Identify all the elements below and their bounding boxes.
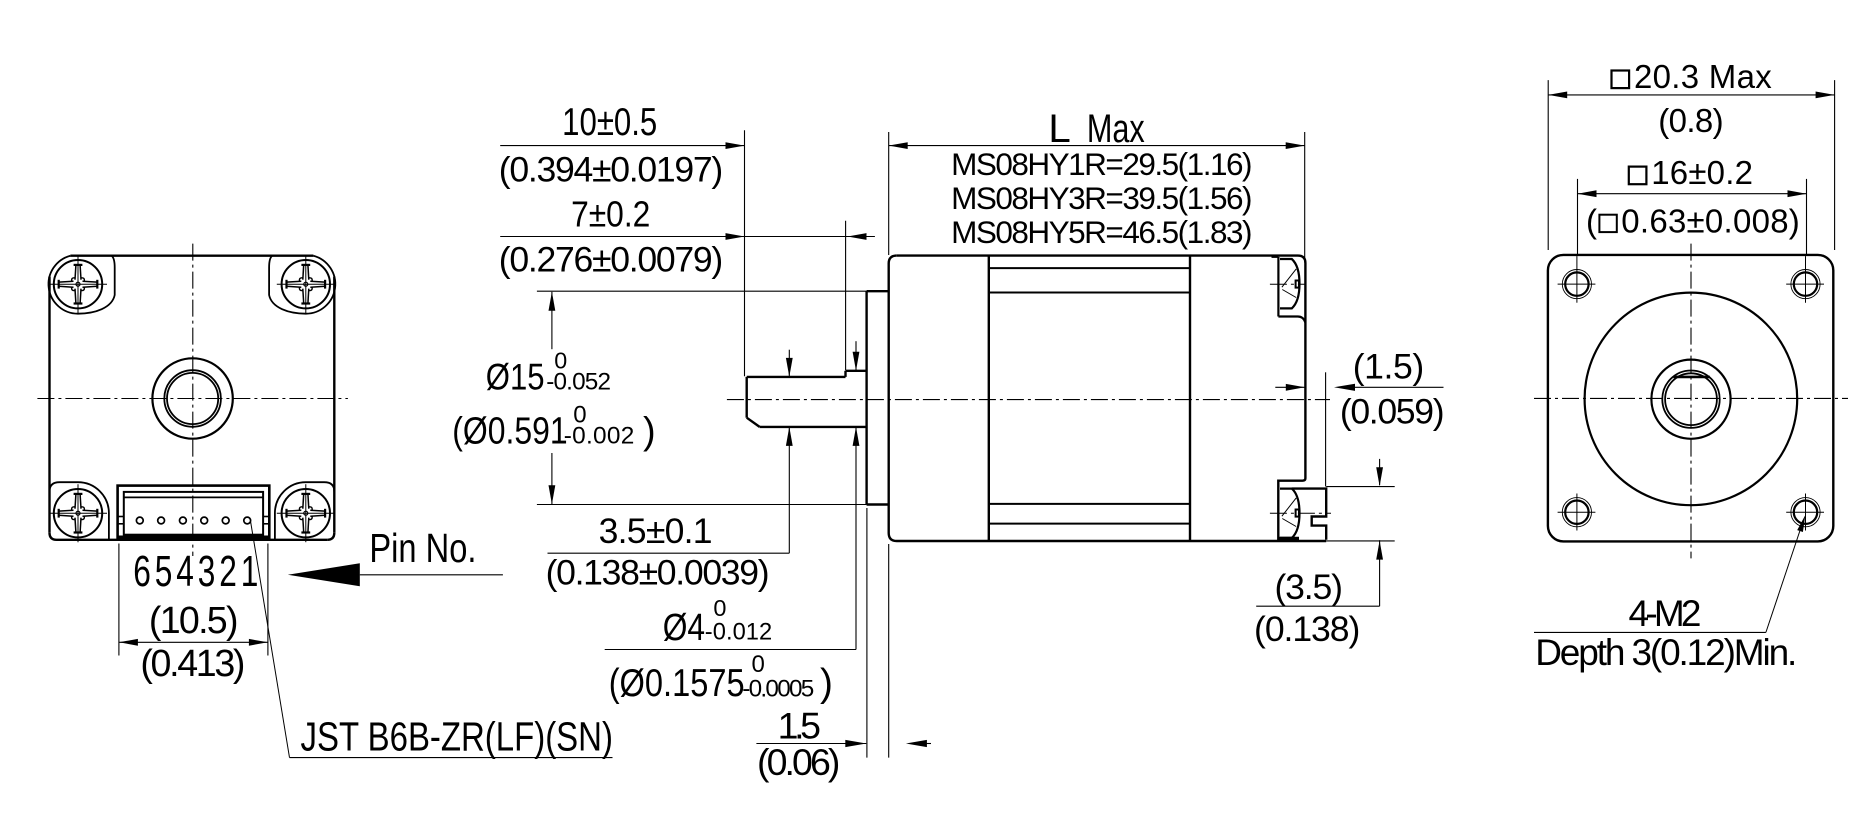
middle view: shaft axis centerline	[727, 399, 1330, 401]
label 4-M2 Depth 3(0.12)Min. with leader to hole	[1534, 520, 1804, 632]
svg-text:(Ø0.1575: (Ø0.1575	[609, 661, 745, 704]
dimension Ø15 boss diameter	[537, 291, 867, 504]
dimension 10±0.5 / (0.394±0.0197)	[500, 130, 889, 376]
left view: center pilot boss circles	[152, 358, 232, 438]
svg-text:(0.138±0.0039): (0.138±0.0039)	[546, 553, 770, 593]
svg-text:Ø4: Ø4	[663, 606, 705, 648]
left view: center lines	[37, 244, 348, 556]
svg-text:): )	[643, 410, 656, 452]
svg-text:(0.413): (0.413)	[140, 642, 245, 684]
dimension square 20.3 Max / (0.8)	[1548, 71, 1834, 251]
svg-text:MS08HY3R=39.5(1.56): MS08HY3R=39.5(1.56)	[951, 180, 1252, 216]
dimension (1.5)/(0.059) rear tab protrusion	[1275, 372, 1443, 486]
screw top-left	[49, 255, 107, 313]
dimension Ø4 shaft diameter	[605, 341, 856, 649]
dimension square 16±0.2 / (0.63±0.008) hole spacing	[1578, 167, 1807, 256]
middle view: top screw head (section)	[1270, 259, 1307, 308]
svg-text:0: 0	[752, 651, 765, 678]
svg-text:0: 0	[573, 401, 586, 428]
svg-text:7±0.2: 7±0.2	[571, 195, 650, 235]
svg-text:0: 0	[713, 595, 726, 621]
right view: front face square	[1548, 255, 1833, 542]
svg-text:(: (	[1586, 202, 1597, 239]
connector pins 6..1	[136, 517, 250, 524]
middle view: lamination stack lines	[989, 256, 1190, 541]
svg-text:): )	[820, 662, 833, 705]
svg-text:MS08HY1R=29.5(1.16): MS08HY1R=29.5(1.16)	[951, 146, 1252, 182]
screw bottom-left	[49, 484, 107, 542]
svg-text:(0.276±0.0079): (0.276±0.0079)	[499, 239, 723, 279]
dimension 1.5/(0.06) boss length	[756, 508, 931, 758]
svg-text:(0.06): (0.06)	[757, 741, 840, 783]
middle view: top rear screw pocket	[1272, 257, 1306, 323]
svg-text:(3.5): (3.5)	[1274, 567, 1343, 607]
left view: corner ear contours around screws	[49, 256, 336, 540]
svg-text:4-M2: 4-M2	[1629, 593, 1702, 634]
svg-text:(1.5): (1.5)	[1353, 346, 1425, 386]
left view: motor rear face outline	[50, 256, 335, 540]
dimension 3.5±0.1 shaft flat	[548, 350, 790, 554]
JST B6B-ZR(LF)(SN) label with leader from pin 1	[251, 521, 613, 758]
svg-text:16±0.2: 16±0.2	[1651, 154, 1753, 191]
svg-text:20.3 Max: 20.3 Max	[1634, 58, 1772, 95]
svg-text:(0.8): (0.8)	[1658, 102, 1723, 139]
svg-text:0: 0	[554, 347, 567, 373]
svg-text:3.5±0.1: 3.5±0.1	[599, 511, 713, 551]
svg-text:(0.394±0.0197): (0.394±0.0197)	[499, 149, 723, 189]
svg-text:Pin No.: Pin No.	[369, 525, 476, 570]
middle view: bottom rear screw head with protruding tab (section)	[1270, 489, 1331, 540]
svg-text:-0.012: -0.012	[705, 620, 772, 646]
dimension L Max with motor length table	[889, 132, 1305, 263]
dimension 7±0.2 / (0.276±0.0079)	[500, 221, 875, 371]
svg-text:0.63±0.008): 0.63±0.008)	[1621, 202, 1800, 239]
screw bottom-right	[277, 484, 335, 542]
right view: center lines	[1534, 244, 1848, 559]
dimension (3.5)/(0.138) rear screw boss height	[1256, 459, 1395, 606]
svg-text:(Ø0.591: (Ø0.591	[452, 410, 567, 452]
svg-text:654321: 654321	[133, 547, 262, 596]
middle view: shaft with flat	[747, 371, 867, 427]
svg-text:Max: Max	[1087, 106, 1145, 151]
connector body (JST)	[118, 486, 270, 539]
svg-text:JST B6B-ZR(LF)(SN): JST B6B-ZR(LF)(SN)	[301, 713, 613, 759]
svg-text:(10.5): (10.5)	[149, 599, 239, 641]
right view: shaft boss and shaft circles with flat	[1651, 360, 1730, 439]
svg-text:(0.138): (0.138)	[1254, 609, 1360, 649]
screw top-right	[277, 255, 335, 313]
middle view: pilot boss	[867, 291, 889, 504]
svg-text:(0.059): (0.059)	[1340, 392, 1445, 432]
right view: 4 corner mounting holes M2	[1558, 256, 1824, 530]
svg-text:MS08HY5R=46.5(1.83): MS08HY5R=46.5(1.83)	[951, 214, 1252, 250]
middle view: motor body outline	[889, 256, 1326, 541]
svg-text:L: L	[1048, 106, 1070, 151]
right view: rotor housing circle	[1585, 293, 1798, 506]
svg-text:Ø15: Ø15	[486, 357, 545, 398]
svg-text:10±0.5: 10±0.5	[562, 101, 657, 144]
svg-text:-0.0005: -0.0005	[742, 675, 814, 702]
svg-text:Depth 3(0.12)Min.: Depth 3(0.12)Min.	[1535, 632, 1797, 673]
dimension (10.5)/(0.413) under connector	[119, 544, 268, 656]
